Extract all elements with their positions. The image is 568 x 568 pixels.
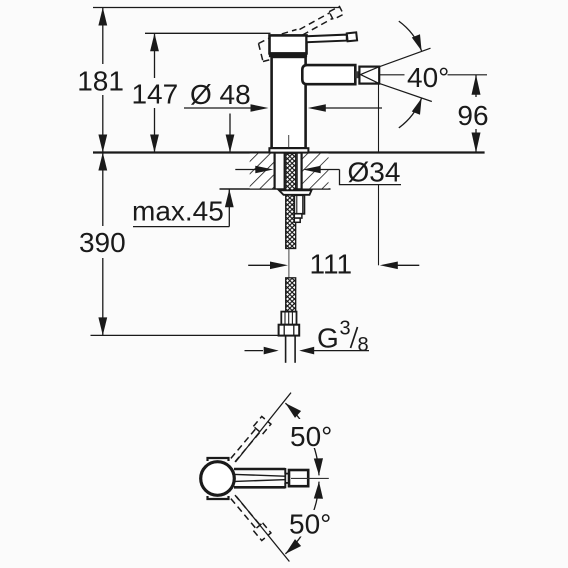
top view flat bottom <box>208 496 229 499</box>
cap joint band <box>269 53 307 57</box>
40 deg arc lower <box>399 98 422 128</box>
max.45 label and up arrow <box>133 226 229 228</box>
top view flat top <box>208 458 229 461</box>
max.45 down arrow <box>229 114 231 153</box>
dimension 96 <box>475 75 477 153</box>
counter hatching right <box>302 154 329 189</box>
body centerline <box>288 135 290 153</box>
top extension line (raised lever height) <box>93 7 341 9</box>
hose connection fitting <box>294 195 304 214</box>
counter top surface line <box>93 151 485 153</box>
dashed swivel spout lower <box>228 493 271 541</box>
svg-text:50°: 50° <box>290 421 332 452</box>
aerator connector <box>355 71 359 78</box>
svg-text:50°: 50° <box>289 509 331 540</box>
svg-text:96: 96 <box>457 100 488 131</box>
aerator spray cross <box>361 67 380 84</box>
svg-text:3: 3 <box>340 318 351 340</box>
top view body circle <box>201 462 235 496</box>
50 deg label lower <box>286 510 342 537</box>
faucet cap <box>270 35 307 53</box>
40 deg leader <box>379 74 404 76</box>
50 deg ray lower <box>237 497 290 562</box>
svg-text:G: G <box>317 322 339 353</box>
dashed lever (raised position) <box>259 6 344 61</box>
50 deg ray upper <box>236 393 292 462</box>
aerator vertical reference line <box>378 84 380 153</box>
top view aerator <box>289 470 308 486</box>
flexible hose lower segment <box>286 278 296 312</box>
counter hatching left <box>250 154 275 189</box>
O48 leader arrow <box>184 107 254 109</box>
aerator <box>359 67 379 84</box>
O34 right arrow and label <box>316 169 340 171</box>
svg-text:max.45: max.45 <box>132 196 224 227</box>
lever rod tip <box>347 32 357 41</box>
hose centerline in gap <box>288 249 290 278</box>
hose nut <box>279 325 300 336</box>
mounting washer <box>279 190 312 195</box>
50 deg label upper <box>287 419 340 448</box>
faucet body <box>272 57 306 148</box>
lever-top extension line <box>145 32 271 34</box>
svg-text:147: 147 <box>131 79 178 110</box>
O34 left arrow <box>235 169 260 171</box>
lever rod <box>307 35 347 43</box>
svg-text:181: 181 <box>77 65 124 96</box>
top view spout inner lines <box>235 474 288 476</box>
base plate <box>269 148 308 152</box>
svg-text:111: 111 <box>310 248 353 279</box>
svg-text:8: 8 <box>358 334 369 356</box>
shank walls <box>274 153 276 190</box>
top view centerline <box>291 477 329 479</box>
O48 arrow right <box>322 107 382 109</box>
top view spout tube <box>234 468 285 471</box>
50 deg arc lower <box>285 482 319 554</box>
dashed swivel spout upper <box>228 416 271 464</box>
G3/8 dimension arrows <box>245 350 264 352</box>
svg-text:390: 390 <box>79 227 126 258</box>
svg-text:40°: 40° <box>407 62 449 93</box>
spray angle line lower <box>379 83 432 101</box>
dimension 111 <box>248 264 274 266</box>
connection pipe <box>285 336 287 363</box>
svg-text:Ø34: Ø34 <box>348 157 401 188</box>
spray angle line upper <box>379 48 430 67</box>
dimension 181 <box>102 8 104 153</box>
dimension 147 <box>154 33 156 152</box>
hose crimp sleeve <box>281 312 296 325</box>
40 deg arc upper <box>399 21 422 51</box>
threaded rod through counter <box>286 154 296 249</box>
top view neck <box>285 474 291 483</box>
svg-text:Ø 48: Ø 48 <box>190 79 251 110</box>
counter underside line <box>220 188 331 190</box>
50 deg arc upper <box>285 403 319 475</box>
hose-end reference line <box>91 334 279 336</box>
spout <box>302 65 355 84</box>
dimension 390 <box>102 153 104 336</box>
